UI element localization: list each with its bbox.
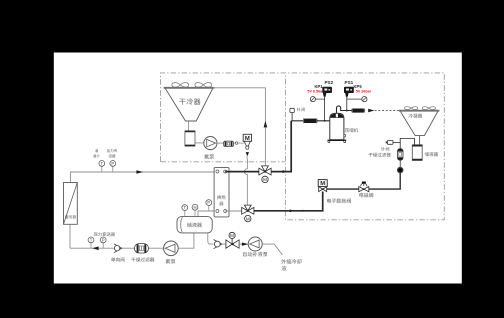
svg-text:5V 26bar: 5V 26bar [356,90,372,94]
needle valve (liquid line) [387,140,393,144]
flow arrow up on bypass riser [264,121,268,128]
svg-text:T: T [90,238,93,243]
fluorine pump (main) [164,241,179,256]
wire: refill pump to external coolant [262,244,282,255]
wire: heat exchanger to tank [198,211,217,217]
auto refill pump label [243,252,268,257]
check valve (ball) on return line [114,244,122,253]
condenser fan 1 [405,107,418,110]
sight glass [224,141,234,146]
fluorine pump label (dry cooler) [204,154,214,159]
compressor discharge loop [337,106,352,113]
wire: pump to sight glass [217,142,224,144]
refill pump inlet cone [242,243,249,246]
wire: load down to return line [69,224,71,248]
needle valve label (suction) [297,108,305,112]
upper three-way valve M [259,168,265,175]
svg-text:P: P [102,238,105,243]
flow arrow right on supply header [136,170,143,174]
svg-text:T: T [184,205,187,210]
suction gauge [310,97,315,102]
electronic expansion valve label [327,199,351,204]
wire: tee down to filter drier [399,142,401,148]
dry cooler fan 1 [172,83,189,88]
wire: expansion valve down to mixing valve (with jump over) [244,155,247,205]
svg-text:P: P [111,161,114,166]
tank sensor H [194,210,196,216]
external coolant label [281,259,301,264]
pressure transmitter label [94,232,115,236]
svg-text:M: M [263,177,267,182]
tank sensor T3 [184,210,186,216]
refill motorized valve M [229,232,235,238]
transmitter P2 [102,243,104,249]
svg-text:M: M [246,216,250,221]
wire: solenoid to expansion valve [327,188,359,190]
wire: lower valve to expansion valve riser [254,192,323,211]
fluorine pump (dry cooler) [204,137,217,150]
flow arrow to condenser [368,109,374,113]
junction dot [282,170,285,173]
thermometer T1 [101,166,103,172]
outdoor unit enclosure (dash-dot boxes) [161,73,445,220]
wire: suction line [291,120,332,122]
wire: tank to refill check valve [208,233,214,244]
filter drier label [131,257,154,261]
pressure sensor P1 [112,166,114,172]
svg-text:P: P [207,200,210,205]
white drawing sheet [54,53,462,284]
junction dots on liquid line [289,210,292,213]
svg-text:M: M [320,181,325,187]
wire: bottom return line [70,233,194,248]
condenser fan 2 [422,107,435,110]
wire: receiver to pump [195,142,204,144]
fluorine pump label [166,259,176,264]
plate heat exchanger 换热器 [214,168,229,217]
wire: sight glass to solenoid corner [369,173,400,189]
lower three-way valve M [242,207,248,214]
compressor suction port dot [332,119,336,123]
electronic expansion valve M 电子膨胀阀 [318,180,327,187]
wire: discharge to condenser (dashed) [375,110,400,112]
compressor label [345,128,358,132]
svg-text:H: H [193,205,196,210]
filter drier (liquid line) [398,149,404,161]
solenoid valve label [359,193,373,198]
filter drier label (liquid) [369,153,391,157]
svg-text:M: M [245,136,250,142]
sight glass ball [397,167,403,173]
wire: motor valve to refill pump [239,243,242,245]
condenser 冷凝器 [400,111,438,136]
svg-text:KP1: KP1 [314,84,323,89]
thermometer label [95,149,98,152]
filter drier on return line [135,244,149,253]
svg-text:T: T [101,161,104,166]
wire: HX to lower three-way valve [225,210,242,212]
coolant tank 储液器 [177,217,212,233]
discharge muffler [352,109,365,113]
wire: check valve to motor valve [222,243,226,245]
svg-text:PS2: PS2 [324,80,333,85]
svg-text:PS1: PS1 [345,80,354,85]
union ring [233,142,235,144]
motorized expansion valve (dry cooler) M [243,134,251,141]
suction muffler [303,119,317,123]
svg-text:KP5: KP5 [354,84,363,89]
auto refill pump 自动补液泵 [248,237,262,251]
discharge gauge [362,97,367,102]
needle valve (suction) [291,112,293,120]
check valve label [111,257,125,261]
tank sensor P3 [208,206,210,212]
svg-text:5V 0.5bar: 5V 0.5bar [307,90,324,94]
wire: HX to upper three-way valve (hot) [225,171,259,173]
liquid receiver 储液器 [412,145,422,160]
dry cooler receiver [185,131,195,146]
solenoid valve 电磁阀 [359,187,364,192]
transmitter T2 [90,243,92,249]
refill check valve (ball) [214,240,222,249]
load / server cabinet [64,183,78,225]
needle valve label (liquid) [381,147,389,151]
dry cooler fan 2 [195,83,212,88]
flow arrow left on return line [92,246,98,250]
wire: dry cooler top to bypass riser [213,88,265,166]
wire: upper valve to compressor suction riser [271,121,291,172]
dry cooler 干冷器 [165,88,213,121]
pressure sensor label [107,149,117,152]
wire: receiver to needle valve tee [393,138,415,145]
wire: dry cooler to receiver [188,121,190,131]
compressor 压缩机 [330,113,344,139]
wire: filter to sight glass ball [399,160,401,167]
wire: condenser to receiver [419,136,421,145]
liquid receiver label [425,152,438,156]
svg-text:M: M [230,233,234,238]
junction dot suction [324,120,326,122]
wire: load to supply header [71,172,215,183]
junction dot discharge [346,110,348,112]
